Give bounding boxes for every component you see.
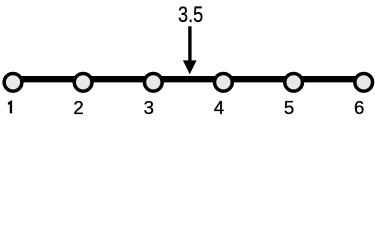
wire: number line [13, 76, 364, 82]
label 1 [8, 101, 12, 114]
svg-text:4: 4 [214, 97, 224, 118]
node 4 [215, 73, 233, 91]
svg-text:3: 3 [144, 97, 154, 118]
svg-text:6: 6 [354, 97, 364, 118]
svg-text:5: 5 [284, 97, 294, 118]
node 5 [285, 73, 303, 91]
svg-text:3.5: 3.5 [178, 3, 203, 27]
node 3 [144, 73, 162, 91]
node 1 [4, 73, 22, 91]
arrow pointing to 3.5 [183, 26, 197, 74]
node 2 [74, 73, 92, 91]
node 6 [355, 73, 373, 91]
svg-text:2: 2 [73, 97, 83, 118]
